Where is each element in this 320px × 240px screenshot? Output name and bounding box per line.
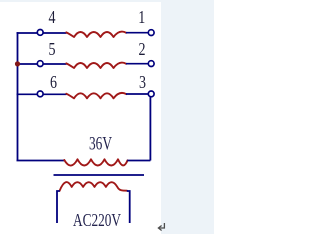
secondary coil row 4-1 <box>66 32 126 37</box>
terminal circle 3 <box>148 91 154 97</box>
terminal circle 1 <box>148 30 154 36</box>
wire: row 3 coil to terminal <box>126 93 148 95</box>
36V secondary winding <box>64 159 127 165</box>
svg-text:2: 2 <box>139 39 146 59</box>
paragraph return mark <box>158 223 164 231</box>
svg-text:3: 3 <box>139 72 146 92</box>
wire: row 6 to coil <box>43 93 66 95</box>
wire: primary right lead <box>127 191 130 223</box>
terminal circle 2 <box>148 61 154 67</box>
svg-text:5: 5 <box>49 39 56 59</box>
transformer core <box>54 174 145 176</box>
wire: row 4 left <box>17 32 38 34</box>
secondary coil row 5-2 <box>66 63 126 68</box>
svg-text:1: 1 <box>138 7 145 27</box>
light blue page margin right <box>161 0 214 234</box>
wire: 36V coil to right corner <box>127 160 150 162</box>
svg-text:6: 6 <box>50 72 57 92</box>
wire: row 5 left <box>17 63 38 65</box>
svg-text:36V: 36V <box>89 134 112 154</box>
wire: right drop from terminal 3 <box>149 97 151 161</box>
wire: bottom left to 36V coil <box>17 160 65 162</box>
wire: row 2 coil to terminal <box>126 63 148 65</box>
wire: left bus vertical <box>17 32 19 160</box>
wire: row 6 left <box>17 93 38 95</box>
wire: row 5 to coil <box>43 63 66 65</box>
secondary coil row 6-3 <box>66 93 126 98</box>
junction dot node 5 <box>15 61 20 66</box>
terminal circle 5 <box>37 61 43 67</box>
svg-text:AC220V: AC220V <box>73 210 121 230</box>
wire: row 1 coil to terminal <box>126 32 148 34</box>
AC220V primary winding <box>60 182 127 191</box>
page background <box>0 0 214 234</box>
wire: row 4 to coil <box>43 32 66 34</box>
terminal circle 4 <box>37 30 43 36</box>
wire: primary left lead <box>57 191 60 223</box>
light blue strip top <box>0 0 214 2</box>
svg-text:4: 4 <box>49 7 56 27</box>
terminal circle 6 <box>37 91 43 97</box>
